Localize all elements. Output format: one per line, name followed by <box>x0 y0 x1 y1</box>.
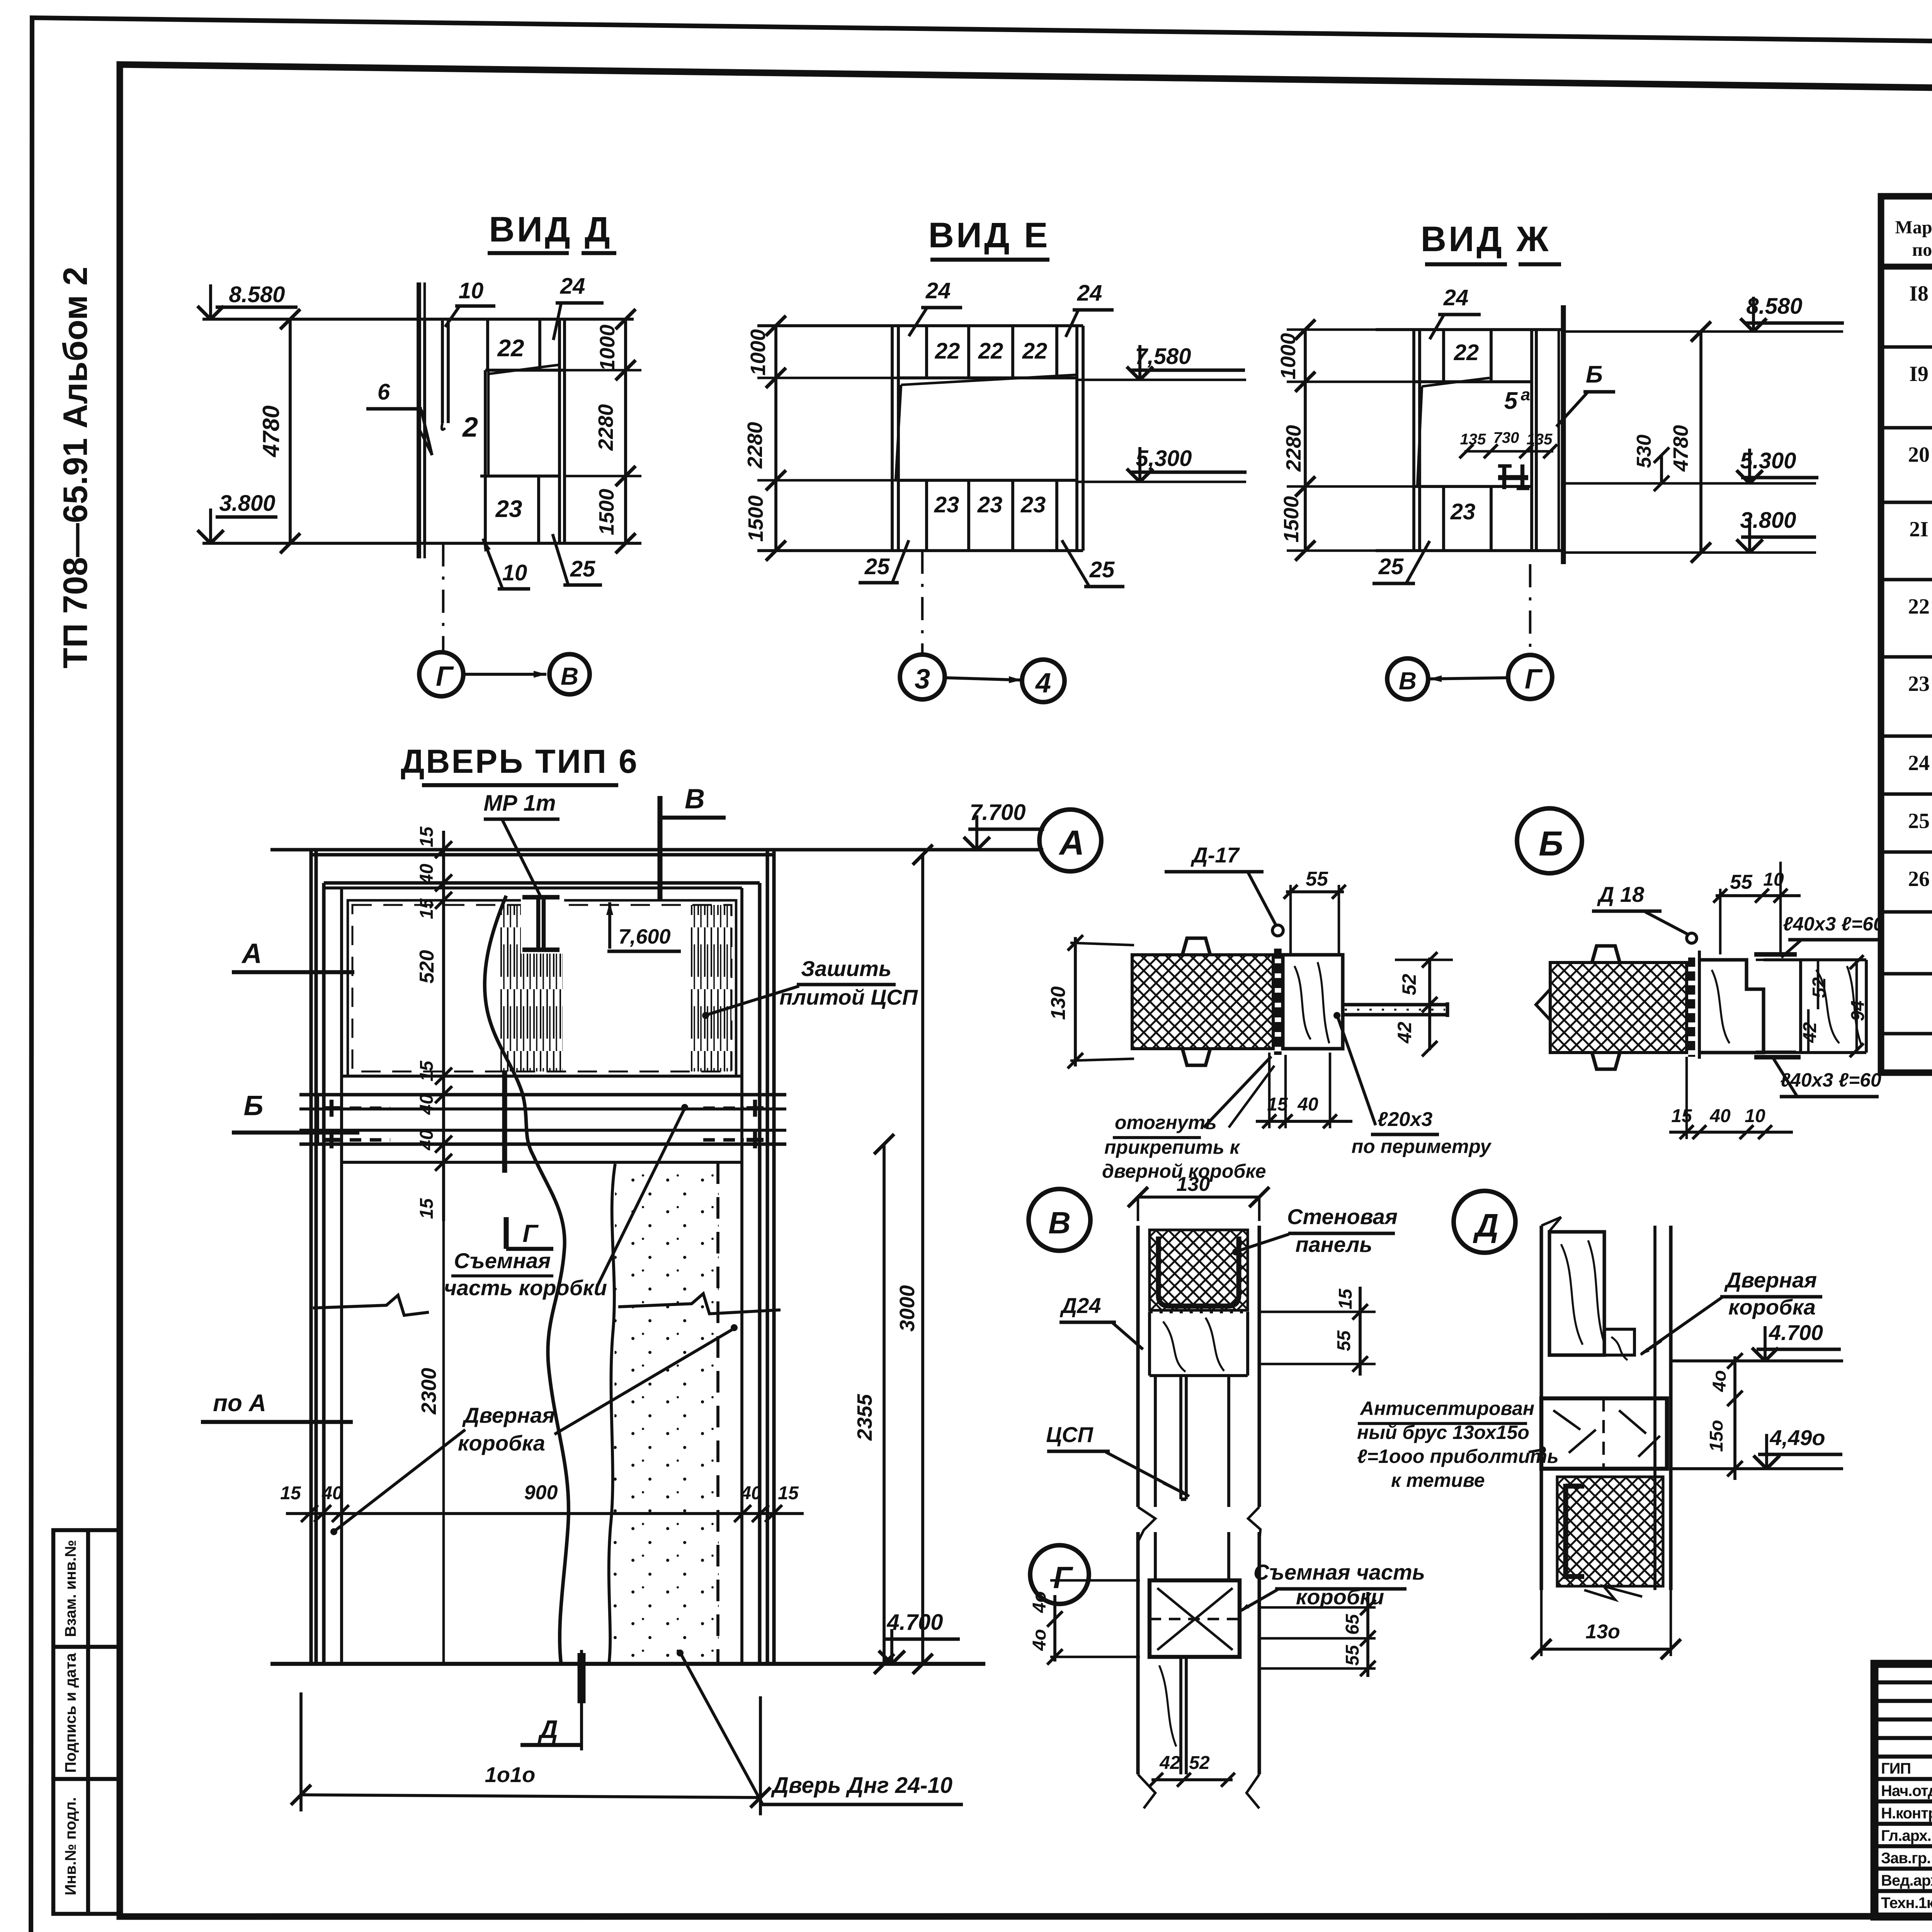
VID D panel 23 box <box>537 476 540 543</box>
svg-text:Д: Д <box>1473 1207 1499 1243</box>
svg-text:10: 10 <box>459 278 484 303</box>
svg-text:4о: 4о <box>1709 1370 1730 1392</box>
svg-text:24: 24 <box>1443 285 1469 310</box>
VID Zh inner column lines <box>1530 330 1533 551</box>
title block outer frame <box>1874 1664 1932 1917</box>
detail D bottom break <box>1584 1586 1642 1600</box>
svg-text:3: 3 <box>915 664 930 695</box>
VID D panel bottom line <box>202 542 641 545</box>
door lintel band <box>299 1093 786 1096</box>
detail V wood blocking <box>1148 1312 1151 1376</box>
svg-text:42: 42 <box>1159 1753 1180 1773</box>
VID Zh circle G <box>1508 655 1552 699</box>
door framuga CSP hatch right <box>689 905 731 1071</box>
svg-text:22: 22 <box>1022 338 1048 364</box>
svg-text:23: 23 <box>934 492 959 517</box>
VID D joint 10 slot <box>441 321 444 423</box>
svg-text:2280: 2280 <box>594 404 617 451</box>
svg-text:23: 23 <box>1020 492 1046 517</box>
svg-text:65: 65 <box>1342 1614 1363 1635</box>
svg-text:ЦСП: ЦСП <box>1046 1422 1094 1447</box>
detail D section outer walls <box>1539 1226 1543 1590</box>
svg-text:Дверь Днг 24-10: Дверь Днг 24-10 <box>770 1773 952 1798</box>
svg-text:Д: Д <box>537 1715 558 1743</box>
detail A bottom dims 15 40 <box>1256 1120 1352 1123</box>
VID E panel right edge <box>1075 326 1078 551</box>
svg-text:по А: по А <box>213 1390 266 1417</box>
svg-text:130: 130 <box>1177 1173 1210 1196</box>
detail V channel profile <box>1158 1236 1239 1306</box>
svg-text:1500: 1500 <box>744 495 767 542</box>
svg-text:4,49о: 4,49о <box>1769 1425 1825 1450</box>
svg-text:ДВЕРЬ ТИП 6: ДВЕРЬ ТИП 6 <box>401 743 639 780</box>
VID E circle 3 <box>900 655 945 699</box>
detail V top panel crosshatched <box>1150 1230 1248 1310</box>
svg-text:40: 40 <box>321 1483 343 1503</box>
svg-text:Г: Г <box>522 1219 539 1247</box>
door break symbols mid <box>313 1295 429 1315</box>
detail B panel break left <box>1536 989 1550 1020</box>
door dim 1010 <box>299 1692 303 1811</box>
VID E panel left edge <box>891 326 894 551</box>
VID Zh sloped inner line <box>1422 378 1490 386</box>
svg-text:1о1о: 1о1о <box>485 1762 536 1787</box>
svg-text:15: 15 <box>280 1483 301 1503</box>
svg-text:7,580: 7,580 <box>1135 344 1191 369</box>
door section mark G vertical <box>502 1070 507 1173</box>
door right dim 3000 <box>921 855 924 1664</box>
detail D top wood box <box>1549 1232 1604 1355</box>
svg-text:1000: 1000 <box>596 325 619 371</box>
svg-text:Вед.арх.: Вед.арх. <box>1881 1872 1932 1889</box>
VID D right dimension line <box>624 319 627 543</box>
svg-text:1000: 1000 <box>1277 333 1300 379</box>
VID D row line above 23 <box>480 474 560 478</box>
VID Zh panel bottom line <box>1376 549 1563 552</box>
svg-text:ℓ20х3: ℓ20х3 <box>1378 1108 1433 1131</box>
svg-text:ТП 708—65.91 Альбом 2: ТП 708—65.91 Альбом 2 <box>56 267 94 668</box>
VID E left dimension line <box>774 326 777 551</box>
svg-text:Техн.1кат.: Техн.1кат. <box>1881 1895 1932 1912</box>
svg-text:Инв.№ подл.: Инв.№ подл. <box>62 1797 79 1895</box>
detail A right dims 52 42 <box>1428 957 1431 1050</box>
detail D top break <box>1541 1217 1561 1231</box>
svg-text:Б: Б <box>244 1090 264 1121</box>
door section line B <box>232 1131 359 1134</box>
VID E circle 4 <box>1022 660 1065 702</box>
svg-text:40: 40 <box>740 1483 762 1503</box>
svg-text:часть коробки: часть коробки <box>444 1276 607 1300</box>
svg-text:по периметру: по периметру <box>1352 1136 1492 1157</box>
svg-text:24: 24 <box>1077 281 1102 306</box>
VID D left dimension line 4780 <box>289 319 292 543</box>
svg-text:Стеновая: Стеновая <box>1287 1204 1398 1229</box>
VID D panel 22 box <box>538 319 541 370</box>
svg-text:40: 40 <box>1297 1094 1318 1115</box>
svg-text:ВИД Д: ВИД Д <box>489 210 612 249</box>
svg-text:23: 23 <box>495 496 522 522</box>
svg-text:52: 52 <box>1189 1753 1210 1773</box>
svg-text:520: 520 <box>416 950 438 984</box>
svg-text:А: А <box>1059 824 1085 862</box>
detail A panel rib top <box>1182 938 1210 955</box>
detail A panel rib bottom <box>1182 1049 1210 1065</box>
svg-text:4о: 4о <box>1029 1629 1050 1651</box>
detail B corner angle top <box>1754 952 1797 957</box>
svg-text:Подпись и дата: Подпись и дата <box>62 1653 79 1773</box>
door right dim 2355 <box>883 1144 886 1664</box>
detail G section outer walls <box>1136 1532 1139 1774</box>
door wall right edge <box>765 850 769 1664</box>
door wall left edge <box>309 850 313 1664</box>
svg-text:25: 25 <box>1378 554 1404 579</box>
door line below band <box>342 1161 742 1164</box>
svg-text:2300: 2300 <box>417 1368 440 1415</box>
svg-text:55: 55 <box>1342 1645 1363 1666</box>
detail A dim 130 <box>1074 937 1077 1066</box>
svg-text:ВИД Ж: ВИД Ж <box>1421 219 1551 259</box>
VID D panel block outline <box>423 319 426 543</box>
svg-text:Зав.гр.: Зав.гр. <box>1881 1850 1930 1867</box>
detail D circle <box>1454 1191 1515 1253</box>
svg-text:Д24: Д24 <box>1060 1293 1101 1318</box>
VID E panel bottom line <box>757 549 1083 552</box>
detail A panel crosshatched <box>1132 955 1273 1049</box>
detail G removable box <box>1150 1580 1240 1657</box>
svg-text:2355: 2355 <box>853 1394 876 1441</box>
svg-text:40: 40 <box>1709 1106 1731 1126</box>
svg-text:24: 24 <box>560 274 585 299</box>
svg-text:3.800: 3.800 <box>219 491 275 516</box>
VID E bottom row dividers <box>925 480 928 551</box>
door framuga CSP hatch left <box>500 905 563 1071</box>
svg-text:5,300: 5,300 <box>1136 446 1192 471</box>
detail A weld seam <box>1274 949 1282 1055</box>
svg-text:40: 40 <box>417 864 437 885</box>
detail D lower panel crosshatched <box>1557 1477 1663 1586</box>
VID Zh circle V <box>1387 658 1428 699</box>
svg-text:Б: Б <box>1539 825 1563 863</box>
detail A screw D-17 <box>1272 925 1283 936</box>
detail B frame with step <box>1698 951 1701 1059</box>
VID E top row line <box>898 376 1077 379</box>
door break wavy line upper <box>485 896 533 1155</box>
svg-text:Д 18: Д 18 <box>1597 882 1645 906</box>
svg-text:ный брус 13ох15о: ный брус 13ох15о <box>1357 1422 1529 1443</box>
specification table header row line <box>1881 264 1932 270</box>
svg-text:55: 55 <box>1306 868 1328 890</box>
svg-text:42: 42 <box>1394 1022 1415 1044</box>
VID Zh elevation 8.580 <box>1563 330 1843 333</box>
margin table Vzam inv <box>53 1530 120 1914</box>
specification table row lines <box>1881 345 1932 349</box>
svg-text:Гл.арх.: Гл.арх. <box>1881 1827 1931 1844</box>
detail G left dims 40 40 <box>1053 1595 1056 1662</box>
door floor line <box>270 1662 985 1666</box>
svg-text:40: 40 <box>417 1094 437 1115</box>
svg-text:панель: панель <box>1295 1232 1372 1257</box>
detail B circle <box>1517 808 1582 873</box>
svg-text:52: 52 <box>1809 977 1830 998</box>
svg-text:Д-17: Д-17 <box>1190 843 1240 867</box>
door lintel band top gap line <box>342 1075 742 1078</box>
svg-text:530: 530 <box>1633 435 1655 468</box>
svg-text:55: 55 <box>1334 1330 1354 1351</box>
detail V dotted separator <box>1150 1310 1248 1313</box>
detail B weld seam <box>1688 957 1695 1057</box>
svg-text:I8: I8 <box>1909 282 1929 306</box>
VID E elevation 7,580 <box>1077 379 1246 381</box>
detail A door leaf bar <box>1343 1003 1447 1006</box>
door section mark D <box>580 1650 583 1750</box>
door leaf dashed edge right <box>716 1162 719 1664</box>
svg-text:В: В <box>1048 1206 1071 1240</box>
svg-text:24: 24 <box>1908 751 1930 775</box>
svg-text:20: 20 <box>1908 443 1930 467</box>
svg-text:24: 24 <box>925 278 951 303</box>
svg-text:10: 10 <box>1745 1106 1765 1126</box>
detail V section outer walls <box>1136 1226 1139 1507</box>
svg-text:25: 25 <box>864 554 890 579</box>
svg-text:1500: 1500 <box>1280 496 1303 543</box>
svg-text:7,600: 7,600 <box>618 925 670 948</box>
door left dimension chain <box>442 831 445 1221</box>
svg-text:4о: 4о <box>1029 1591 1050 1613</box>
door concrete dotted fill <box>609 1164 719 1664</box>
door frame left bar <box>322 883 325 1664</box>
svg-text:ℓ40х3 ℓ=60: ℓ40х3 ℓ=60 <box>1780 1069 1881 1091</box>
svg-text:22: 22 <box>497 335 524 362</box>
detail V lower jamb lines <box>1154 1376 1157 1507</box>
svg-text:коробка: коробка <box>1728 1295 1816 1319</box>
door section line A upper <box>232 970 354 974</box>
svg-text:Съемная: Съемная <box>454 1248 551 1273</box>
VID Zh view direction arrow <box>1429 678 1508 679</box>
detail G right dims 65 55 <box>1259 1606 1376 1609</box>
detail G bottom break <box>1138 1774 1155 1808</box>
svg-text:22: 22 <box>1908 595 1930 619</box>
VID Zh left dimension line <box>1304 330 1307 551</box>
VID Zh top row line <box>1414 380 1532 383</box>
VID Zh elevation 3.800 <box>1563 551 1816 554</box>
svg-text:15: 15 <box>778 1483 799 1503</box>
svg-text:6: 6 <box>378 379 390 405</box>
detail G circle <box>1030 1545 1089 1604</box>
VID D axis line to circle G <box>442 543 445 652</box>
detail D inner column <box>1603 1232 1606 1355</box>
svg-text:4780: 4780 <box>1669 425 1692 472</box>
svg-text:55: 55 <box>1730 871 1753 893</box>
svg-text:ГИП: ГИП <box>1881 1760 1911 1777</box>
svg-text:130: 130 <box>1047 986 1070 1020</box>
svg-text:4.700: 4.700 <box>1769 1320 1823 1345</box>
svg-text:900: 900 <box>524 1481 558 1504</box>
specification table outer frame <box>1881 196 1932 1073</box>
detail B bottom dims 15 40 10 <box>1669 1131 1793 1134</box>
svg-text:Съемная часть: Съемная часть <box>1253 1560 1425 1584</box>
svg-text:22: 22 <box>978 338 1003 364</box>
door concrete area wavy edge <box>609 1164 615 1664</box>
svg-text:15: 15 <box>417 826 437 847</box>
door elevation 7,600 inside <box>608 902 611 949</box>
title block signature rows <box>1874 1777 1932 1781</box>
svg-text:15: 15 <box>417 1198 437 1219</box>
svg-text:15о: 15о <box>1706 1420 1727 1452</box>
svg-text:5: 5 <box>1504 388 1518 414</box>
VID D wall edge line <box>417 282 421 558</box>
svg-text:22: 22 <box>935 338 960 364</box>
svg-text:15: 15 <box>417 1060 437 1082</box>
title block top thin rows <box>1874 1680 1932 1684</box>
svg-text:В: В <box>561 662 578 690</box>
svg-text:13о: 13о <box>1585 1621 1620 1643</box>
door wall top lines <box>270 848 1043 851</box>
VID E axis line to circle 3 <box>921 551 924 655</box>
svg-text:26: 26 <box>1908 867 1930 891</box>
detail D step notch <box>1549 1329 1634 1355</box>
svg-text:40: 40 <box>417 1129 437 1151</box>
detail D lower channel <box>1566 1484 1584 1577</box>
door anchor I-beam MP1t <box>536 896 540 951</box>
detail A door frame section <box>1283 955 1343 1049</box>
detail B screw D18 <box>1687 933 1697 943</box>
svg-text:1500: 1500 <box>595 489 618 535</box>
svg-text:ℓ40х3 ℓ=60: ℓ40х3 ℓ=60 <box>1783 913 1884 935</box>
door section G corner mark <box>504 1217 509 1249</box>
detail A circle <box>1039 810 1101 871</box>
VID Zh wall edge right <box>1561 305 1566 564</box>
svg-text:Антисептирован: Антисептирован <box>1359 1398 1534 1419</box>
detail G lower jamb <box>1179 1657 1182 1774</box>
svg-text:Взам. инв.№: Взам. инв.№ <box>62 1540 79 1637</box>
VID Zh panel top line <box>1376 328 1563 331</box>
svg-text:23: 23 <box>977 492 1003 517</box>
svg-text:МР 1т: МР 1т <box>484 791 556 816</box>
svg-text:Г: Г <box>1053 1560 1073 1595</box>
svg-text:А: А <box>241 938 262 969</box>
VID E panel top line <box>757 324 1083 327</box>
VID D circle V <box>549 654 590 694</box>
svg-text:1000: 1000 <box>747 329 770 376</box>
svg-text:Г: Г <box>436 661 454 692</box>
svg-text:8.580: 8.580 <box>229 282 285 307</box>
svg-text:В: В <box>685 784 705 815</box>
svg-text:25: 25 <box>1908 809 1930 833</box>
svg-text:3000: 3000 <box>896 1285 919 1332</box>
detail B wood jamb right <box>1799 960 1802 1053</box>
detail B panel crosshatched <box>1550 963 1687 1053</box>
svg-text:В: В <box>1399 667 1417 695</box>
VID Zh axis line to circle G <box>1529 564 1532 655</box>
svg-text:а: а <box>1521 385 1530 404</box>
VID Zh panel left edge <box>1412 330 1415 551</box>
door section mark V top <box>658 796 663 900</box>
svg-text:Нач.отд.: Нач.отд. <box>1881 1782 1932 1799</box>
svg-text:Г: Г <box>1525 664 1543 695</box>
svg-text:Дверная: Дверная <box>462 1403 555 1427</box>
door framuga dashed inner contour <box>348 900 736 1076</box>
door frame top bar <box>324 881 760 884</box>
VID Zh anchor element <box>1502 464 1506 489</box>
svg-text:Марка,: Марка, <box>1895 217 1932 238</box>
VID D row line under 22 <box>485 369 565 372</box>
detail G section break from V <box>1138 1507 1155 1542</box>
svg-text:15: 15 <box>1335 1288 1356 1310</box>
VID D panel 24 slot <box>558 319 561 543</box>
svg-text:Б: Б <box>1586 361 1603 388</box>
VID E bottom row line <box>898 479 1077 482</box>
svg-text:ВИД Е: ВИД Е <box>928 216 1050 255</box>
VID Zh panel 23 box <box>1490 486 1493 551</box>
VID D circle G <box>419 652 463 696</box>
VID D panel column line <box>484 370 487 543</box>
detail B corner angle bottom <box>1754 1055 1801 1060</box>
VID E sloped inner line <box>901 375 1076 385</box>
door frame right bar <box>758 883 761 1664</box>
door lintel band bolts left <box>323 1106 340 1110</box>
svg-text:94: 94 <box>1848 1000 1868 1021</box>
svg-text:поз: поз <box>1912 240 1932 260</box>
VID Zh panel 22 box <box>1490 330 1493 382</box>
svg-text:23: 23 <box>1450 499 1476 524</box>
svg-text:4780: 4780 <box>258 405 284 457</box>
svg-text:Н.контр.: Н.контр. <box>1881 1805 1932 1822</box>
detail D dim 40 <box>1733 1356 1736 1480</box>
svg-text:отогнуть: отогнуть <box>1115 1112 1217 1133</box>
detail B panel rib bottom <box>1592 1053 1620 1069</box>
detail B right dims 52 42 94 <box>1817 960 1820 1009</box>
detail V right dims 15 55 <box>1259 1311 1376 1313</box>
svg-text:коробка: коробка <box>458 1431 545 1455</box>
svg-text:52: 52 <box>1398 974 1420 995</box>
svg-text:15: 15 <box>1671 1106 1692 1126</box>
svg-text:25: 25 <box>1089 557 1115 582</box>
VID D view direction arrow <box>464 673 546 676</box>
VID E top row dividers <box>925 326 928 378</box>
svg-text:2280: 2280 <box>743 422 767 469</box>
VID Zh bottom row line <box>1414 485 1532 488</box>
svg-text:10: 10 <box>502 560 527 585</box>
svg-text:I9: I9 <box>1909 362 1929 386</box>
svg-text:прикрепить к: прикрепить к <box>1104 1136 1240 1158</box>
svg-text:ℓ=1ооо приболтить: ℓ=1ооо приболтить <box>1357 1446 1559 1467</box>
svg-text:42: 42 <box>1800 1022 1820 1043</box>
svg-text:4.700: 4.700 <box>886 1610 943 1635</box>
svg-text:4: 4 <box>1035 668 1051 699</box>
door bottom width dims <box>286 1512 804 1515</box>
svg-text:15: 15 <box>417 898 437 919</box>
VID E elevation 5,300 <box>1077 481 1246 483</box>
VID D panel top line <box>202 318 634 321</box>
svg-text:730: 730 <box>1493 429 1519 446</box>
VID E view direction arrow <box>945 678 1022 680</box>
detail B panel rib top <box>1592 946 1620 963</box>
svg-text:23: 23 <box>1908 672 1930 696</box>
svg-text:22: 22 <box>1454 340 1479 365</box>
svg-text:Зашить: Зашить <box>801 956 891 981</box>
door lintel band bolts right <box>747 1106 764 1110</box>
door break wavy line lower <box>533 1155 568 1664</box>
svg-text:2I: 2I <box>1909 517 1929 541</box>
svg-text:2: 2 <box>462 412 478 443</box>
svg-text:25: 25 <box>570 556 595 582</box>
VID Zh panel 24 slot <box>1442 330 1445 382</box>
svg-text:плитой ЦСП: плитой ЦСП <box>779 985 918 1009</box>
svg-text:Дверная: Дверная <box>1724 1268 1817 1292</box>
svg-text:15: 15 <box>1267 1094 1288 1115</box>
svg-text:2280: 2280 <box>1282 425 1305 472</box>
svg-text:к тетиве: к тетиве <box>1391 1469 1485 1491</box>
